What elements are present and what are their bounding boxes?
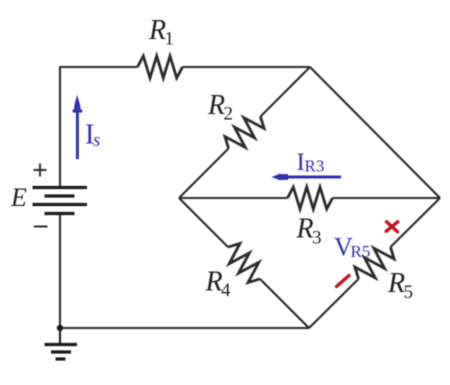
current arrow Is [73,95,83,159]
svg-text:2: 2 [224,104,234,125]
resistor R3 [288,187,333,209]
polarity mark red minus [337,276,350,287]
wire R2 to left corner [179,148,229,198]
label IR3 [297,149,325,176]
label R4 [205,267,232,302]
svg-text:1: 1 [165,29,175,50]
label Is [85,120,100,152]
wire left vertical top (battery + to top-left corner) [59,67,61,187]
wire bottom horizontal [60,327,309,329]
label R1 [148,15,174,50]
svg-text:5: 5 [404,282,414,303]
wire R5 to right corner [390,198,440,247]
wire top left segment [59,66,138,68]
current arrow IR3 [272,174,342,181]
resistor R2 [221,109,268,156]
svg-text:R: R [296,214,314,245]
svg-text:R: R [205,267,223,298]
wire middle left segment [179,197,288,199]
wire R4 to bottom corner [260,279,309,328]
svg-text:3: 3 [312,228,322,249]
svg-text:R: R [387,268,405,299]
svg-text:R: R [148,15,166,46]
wire middle right segment [333,197,441,199]
wire left corner to R4 [179,198,228,247]
label R2 [207,90,233,125]
battery plus sign [34,164,47,177]
svg-text:4: 4 [221,280,231,301]
label R5 [387,268,413,303]
ground [45,328,78,359]
resistor R1 [138,56,183,78]
resistor R4 [220,239,267,286]
polarity mark red x [386,222,398,232]
battery E plates [33,188,88,214]
battery minus sign [34,226,48,228]
label R3 [296,214,322,249]
svg-text:R: R [207,90,225,121]
node junction dot [57,325,63,331]
wire top right segment [183,66,311,68]
wire diagonal top corner to R2 [260,67,310,117]
wire diagonal top corner to right corner [310,67,440,198]
wire bottom corner to R5 [309,279,359,328]
svg-text:R3: R3 [305,156,325,175]
svg-text:R5: R5 [351,242,371,261]
resistor R5 [351,239,398,286]
label VR5 [334,233,370,262]
svg-text:E: E [10,183,27,212]
wire battery minus to ground node [59,213,61,329]
svg-text:s: s [93,130,100,151]
